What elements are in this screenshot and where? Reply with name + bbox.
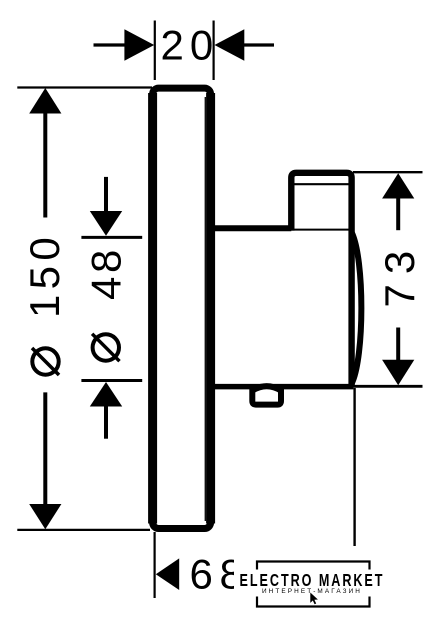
- dim 73: lower stem: [396, 328, 400, 361]
- svg-text:73: 73: [376, 241, 423, 308]
- body right bulge arc: [352, 233, 362, 384]
- dim 73: top extension line: [353, 171, 423, 173]
- body top edge thin continuation under stop box: [291, 229, 352, 231]
- dim 150: bottom arrowhead: [29, 504, 61, 529]
- dim 150: top extension line: [17, 86, 152, 88]
- dim 68: right extension line: [353, 388, 355, 560]
- dim 150: upper stem: [43, 112, 47, 218]
- dim 73: bottom extension line: [353, 385, 423, 388]
- logo bottom bracket: [257, 597, 370, 607]
- svg-text:ИНТЕРНЕТ-МАГАЗИН: ИНТЕРНЕТ-МАГАЗИН: [262, 588, 362, 595]
- dim 150: lower stem: [43, 392, 47, 506]
- dim 20: right leader: [243, 43, 274, 46]
- dim 150: bottom extension line: [17, 529, 150, 531]
- dim 73: top arrowhead: [382, 173, 414, 198]
- dim 73: upper stem: [396, 197, 400, 230]
- body top edge (thick): [211, 225, 291, 231]
- body bottom edge (thick): [211, 384, 353, 390]
- svg-text:48: 48: [83, 246, 130, 300]
- dim 48: top arrowhead: [90, 211, 122, 236]
- dim 150: top arrowhead: [29, 88, 61, 114]
- svg-text:20: 20: [161, 22, 220, 69]
- logo top bracket: [257, 562, 370, 570]
- dim 20: right extension line: [213, 21, 215, 81]
- dim 48: diameter symbol circle: [93, 334, 119, 360]
- logo white backdrop: [234, 546, 392, 615]
- dim 48: bottom stem: [104, 406, 108, 439]
- dim 48: bottom tick: [81, 379, 142, 382]
- mouse cursor: [310, 593, 318, 605]
- svg-text:150: 150: [21, 232, 68, 318]
- dim 48: top stem: [104, 177, 108, 212]
- dim 20: left leader: [94, 43, 127, 46]
- dim 73: bottom arrowhead: [382, 360, 414, 385]
- escutcheon plate (side view): [153, 88, 211, 528]
- stop valve box inner line: [295, 183, 349, 185]
- dim 48: bottom arrowhead: [90, 382, 122, 407]
- dim 150: diameter symbol circle: [32, 348, 58, 374]
- dim 20: right arrowhead: [215, 29, 245, 61]
- dim 68: left arrowhead: [156, 558, 179, 590]
- stop valve box: [291, 173, 351, 387]
- dim 150: diameter symbol slash: [32, 348, 59, 375]
- dim 48: top tick: [81, 236, 142, 239]
- plate inner thin line: [204, 97, 206, 521]
- dim 20: left extension line: [154, 21, 156, 81]
- bottom tab: [252, 386, 281, 404]
- dim 20: left arrowhead: [124, 29, 154, 61]
- dim 48: diameter symbol slash: [92, 334, 119, 361]
- plate right edge thickening: [206, 93, 215, 524]
- plate left edge thickening: [148, 93, 157, 524]
- dim 68: left extension line: [154, 532, 156, 598]
